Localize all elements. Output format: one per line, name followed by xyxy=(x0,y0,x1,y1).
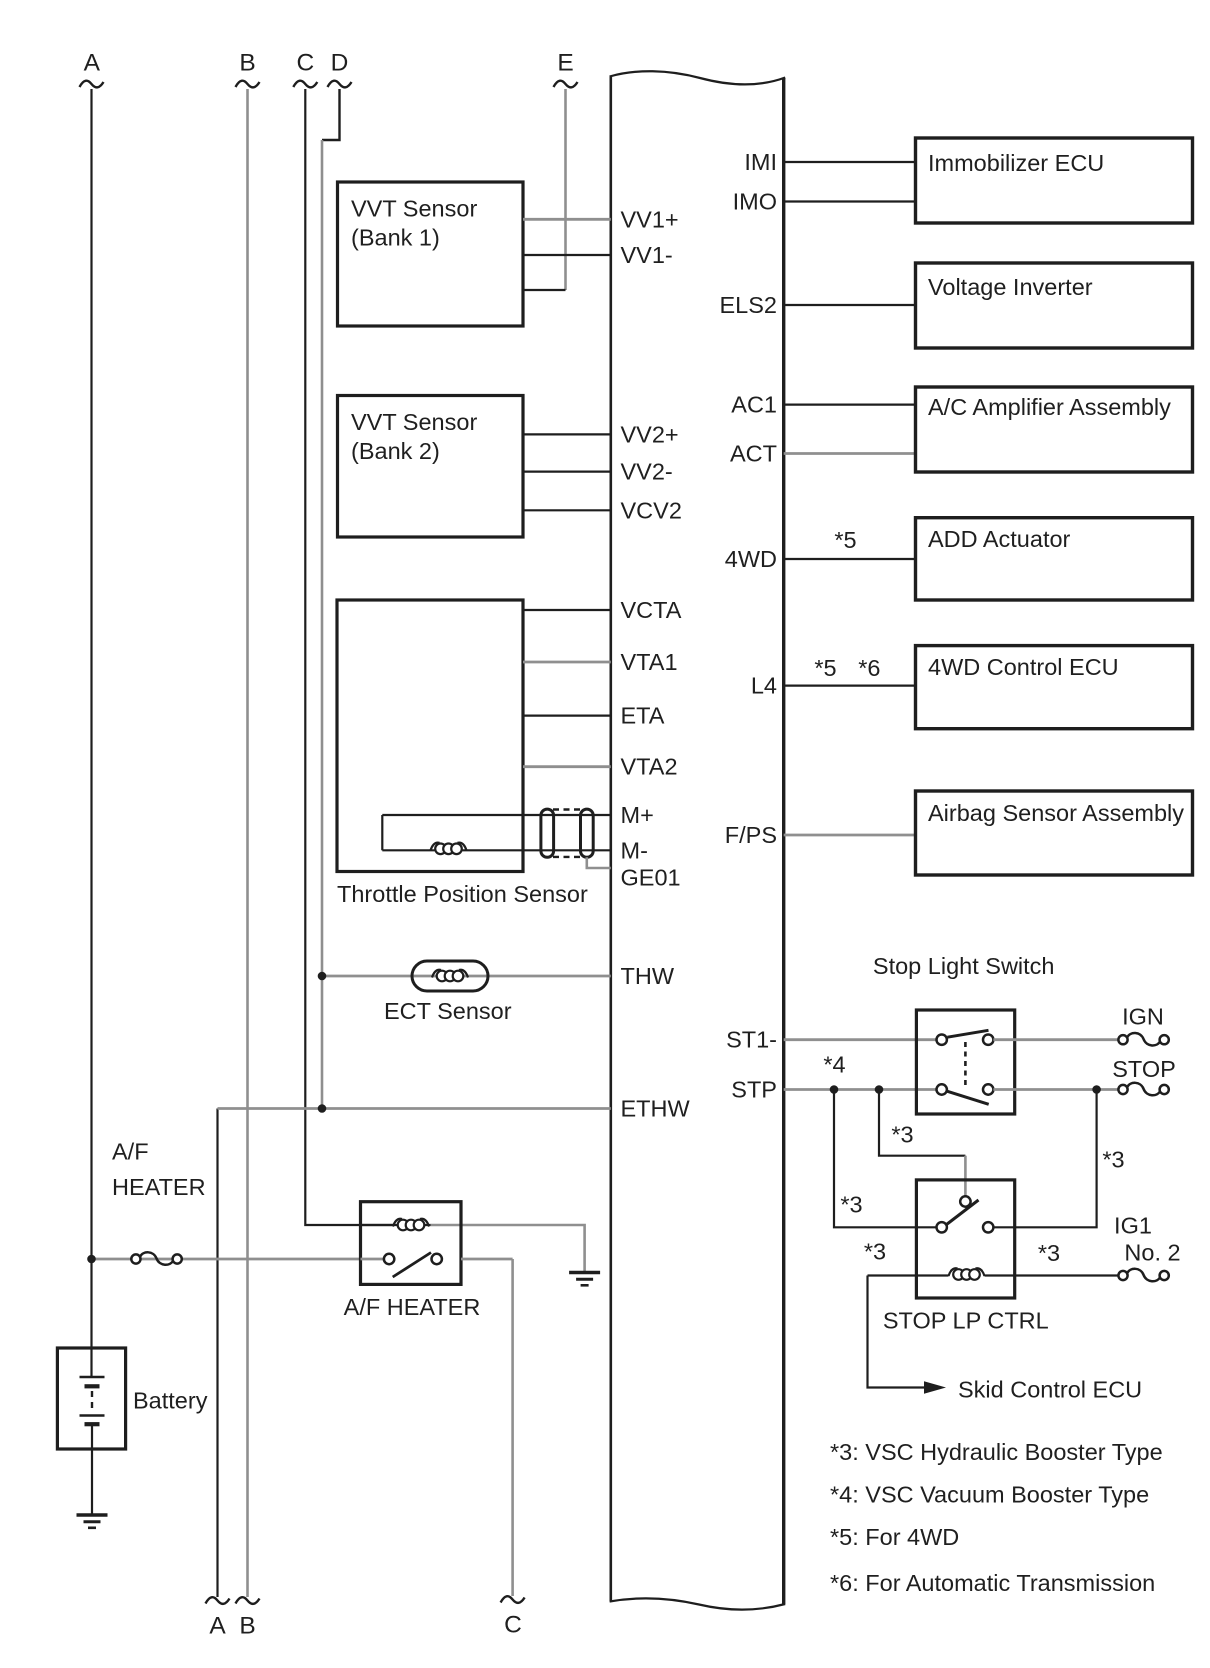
wire break D top xyxy=(328,81,352,88)
svg-text:A: A xyxy=(209,1613,226,1640)
svg-text:4WD: 4WD xyxy=(725,546,777,572)
wire break A top xyxy=(80,81,104,88)
svg-text:STP: STP xyxy=(731,1077,777,1103)
fuse STOP xyxy=(1118,1085,1127,1094)
battery box xyxy=(57,1348,125,1449)
wire THW xyxy=(322,975,611,978)
shield dashes top xyxy=(553,808,582,810)
svg-text:ECT Sensor: ECT Sensor xyxy=(384,998,512,1024)
wire VCV2 xyxy=(523,509,611,511)
svg-text:4WD Control ECU: 4WD Control ECU xyxy=(928,654,1119,680)
ADD actuator box xyxy=(916,518,1193,600)
switch contact ST1 right xyxy=(983,1035,993,1045)
wire battery feed xyxy=(92,1258,361,1261)
node STP junction 2 xyxy=(875,1085,884,1094)
svg-text:VVT Sensor: VVT Sensor xyxy=(351,196,477,222)
svg-text:GE01: GE01 xyxy=(621,865,681,891)
fuse A/F heater xyxy=(131,1254,140,1263)
wire VTA2 xyxy=(523,765,611,768)
wire STP drop to LP top xyxy=(879,1090,965,1156)
svg-text:F/PS: F/PS xyxy=(725,822,777,848)
switch contact LP left xyxy=(937,1222,947,1232)
svg-text:*5: *5 xyxy=(814,655,836,681)
svg-text:VTA2: VTA2 xyxy=(621,754,678,780)
switch arm STP xyxy=(947,1091,988,1104)
wire break B bottom xyxy=(236,1597,260,1604)
svg-text:Throttle Position Sensor: Throttle Position Sensor xyxy=(337,881,588,907)
svg-text:ADD Actuator: ADD Actuator xyxy=(928,526,1071,552)
thermistor ECT sensor capsule xyxy=(412,961,488,991)
switch contact ST1 left xyxy=(937,1035,947,1045)
wire VV1+ xyxy=(523,218,611,221)
svg-text:*3: *3 xyxy=(840,1192,862,1218)
wire VV2+ xyxy=(523,433,611,435)
svg-text:*4: *4 xyxy=(823,1052,845,1078)
stop lamp control relay box xyxy=(916,1180,1014,1298)
inductor throttle motor coil xyxy=(431,843,440,851)
wire relay coil feed xyxy=(361,1224,431,1226)
svg-text:M-: M- xyxy=(621,837,648,863)
svg-text:VCV2: VCV2 xyxy=(621,497,682,523)
wire VCTA xyxy=(523,609,611,611)
svg-text:VCTA: VCTA xyxy=(621,597,682,623)
wire ACT xyxy=(784,452,916,455)
wire IMI xyxy=(784,161,916,163)
switch contact STP left xyxy=(937,1084,947,1094)
shield dashes bottom xyxy=(553,856,582,858)
A/C amplifier assembly box xyxy=(916,387,1193,472)
svg-text:E: E xyxy=(557,50,573,77)
svg-text:(Bank 1): (Bank 1) xyxy=(351,225,440,251)
wire LP right contact to STP xyxy=(993,1090,1096,1228)
wire ETA xyxy=(523,714,611,716)
wire LP top contact feed xyxy=(964,1156,967,1197)
wire rail B xyxy=(246,89,249,1597)
wire VTA1 xyxy=(523,661,611,664)
wire bottom rail A xyxy=(216,1109,218,1598)
svg-text:Airbag Sensor Assembly: Airbag Sensor Assembly xyxy=(928,800,1184,826)
inductor LP coil xyxy=(949,1268,958,1276)
node ETHW junction xyxy=(318,1104,327,1113)
svg-text:C: C xyxy=(296,50,314,77)
ground battery ground xyxy=(77,1513,108,1517)
wire break A bottom xyxy=(206,1597,230,1604)
wire relay contact out xyxy=(461,1258,513,1261)
switch arm ST1 xyxy=(947,1030,988,1037)
svg-text:VV1-: VV1- xyxy=(621,242,673,268)
svg-text:*5: For 4WD: *5: For 4WD xyxy=(830,1524,959,1550)
svg-text:VV2-: VV2- xyxy=(621,459,673,485)
4WD control ECU box xyxy=(916,646,1193,729)
svg-text:L4: L4 xyxy=(751,673,777,699)
svg-text:HEATER: HEATER xyxy=(112,1174,206,1200)
node battery feed junction xyxy=(87,1255,96,1264)
wire battery negative xyxy=(91,1424,93,1514)
wire L4 xyxy=(784,684,916,686)
svg-text:ETA: ETA xyxy=(621,703,665,729)
svg-text:*6: *6 xyxy=(858,655,880,681)
svg-text:C: C xyxy=(504,1612,522,1639)
wire rail A xyxy=(90,89,92,1377)
wire LP coil right to fuse xyxy=(985,1274,1119,1276)
svg-text:B: B xyxy=(239,50,255,77)
svg-text:A/F HEATER: A/F HEATER xyxy=(344,1294,481,1320)
fuse IG1 No.2 xyxy=(1118,1271,1127,1280)
wire GE01 shield drain xyxy=(587,857,611,868)
svg-text:*3: *3 xyxy=(891,1122,913,1148)
immobilizer ECU box xyxy=(916,138,1193,223)
wire F/PS xyxy=(784,834,916,837)
wire STP xyxy=(784,1088,937,1091)
node STP junction right xyxy=(1092,1085,1101,1094)
svg-text:M+: M+ xyxy=(621,802,654,828)
switch arm LP xyxy=(947,1200,979,1225)
wire relay coil out xyxy=(431,1225,585,1271)
wire to skid control ECU xyxy=(868,1276,926,1388)
VVT sensor (Bank 1) box xyxy=(338,182,524,326)
shield ferrite right xyxy=(581,809,594,857)
wire VV1- xyxy=(523,254,611,256)
svg-text:VV2+: VV2+ xyxy=(621,421,679,447)
wire relay contact in xyxy=(361,1258,384,1261)
svg-text:ACT: ACT xyxy=(730,441,777,467)
wire 4WD xyxy=(784,558,916,560)
svg-text:*4: VSC Vacuum Booster Type: *4: VSC Vacuum Booster Type xyxy=(830,1482,1149,1508)
svg-text:IGN: IGN xyxy=(1122,1004,1164,1030)
svg-text:Skid Control ECU: Skid Control ECU xyxy=(958,1377,1142,1403)
VVT sensor (Bank 2) box xyxy=(338,396,524,538)
relay switch arm xyxy=(393,1253,431,1278)
wire STP to STOP xyxy=(993,1088,1118,1091)
wire break E top xyxy=(554,81,578,88)
switch dashed gang link xyxy=(964,1042,967,1088)
relay contact right xyxy=(432,1254,442,1264)
airbag sensor assembly box xyxy=(916,791,1193,875)
switch contact LP top xyxy=(960,1196,970,1206)
battery plate short bottom xyxy=(85,1422,100,1426)
wire AC1 xyxy=(784,404,916,406)
wire break B top xyxy=(236,81,260,88)
svg-text:(Bank 2): (Bank 2) xyxy=(351,438,440,464)
svg-text:*6: For Automatic Transmission: *6: For Automatic Transmission xyxy=(830,1570,1155,1596)
svg-text:*3: VSC Hydraulic Booster Type: *3: VSC Hydraulic Booster Type xyxy=(830,1439,1163,1465)
battery plate short top xyxy=(85,1384,100,1388)
svg-text:AC1: AC1 xyxy=(731,392,777,418)
svg-text:B: B xyxy=(239,1613,255,1640)
fuse IGN xyxy=(1118,1035,1127,1044)
battery plate long top xyxy=(80,1376,105,1378)
svg-text:VTA1: VTA1 xyxy=(621,649,678,675)
relay A/F HEATER box xyxy=(361,1202,462,1285)
wire LP coil left xyxy=(868,1274,949,1276)
svg-text:*3: *3 xyxy=(864,1239,886,1265)
arrowhead skid control xyxy=(924,1381,946,1393)
wire VVT1 to rail E xyxy=(523,289,566,291)
wire motor left link xyxy=(381,815,383,850)
wire rail D jog xyxy=(322,89,340,140)
svg-text:Stop Light Switch: Stop Light Switch xyxy=(873,953,1055,979)
svg-text:*5: *5 xyxy=(834,527,856,553)
svg-text:VVT Sensor: VVT Sensor xyxy=(351,409,477,435)
svg-text:Battery: Battery xyxy=(133,1388,208,1414)
wire rail E xyxy=(564,89,567,290)
ECM body left edge xyxy=(609,77,612,1602)
svg-text:STOP: STOP xyxy=(1112,1056,1176,1082)
svg-text:VV1+: VV1+ xyxy=(621,206,679,232)
ECM body right edge xyxy=(782,78,785,1604)
wire break C bottom xyxy=(501,1596,525,1603)
stop light switch box xyxy=(916,1010,1014,1114)
shield ferrite left xyxy=(541,809,554,857)
svg-text:IMI: IMI xyxy=(744,149,777,175)
svg-text:D: D xyxy=(331,50,349,77)
switch contact LP right xyxy=(983,1222,993,1232)
svg-text:No. 2: No. 2 xyxy=(1124,1240,1180,1266)
node THW junction xyxy=(318,972,327,981)
svg-text:*3: *3 xyxy=(1038,1240,1060,1266)
throttle position sensor box xyxy=(337,600,523,872)
ECM body bottom wavy edge xyxy=(610,1598,786,1609)
wire ELS2 xyxy=(784,304,916,306)
svg-text:THW: THW xyxy=(621,963,675,989)
voltage inverter box xyxy=(916,263,1193,348)
wire rail D continuation xyxy=(321,140,324,1109)
node STP junction 1 xyxy=(830,1085,839,1094)
ECM body top wavy edge xyxy=(610,71,786,84)
inductor ECT sensor element xyxy=(432,970,441,978)
wire bottom rail C xyxy=(511,1259,514,1596)
battery plate long bottom xyxy=(80,1414,105,1416)
wire M+ motor xyxy=(382,814,611,816)
switch contact STP right xyxy=(983,1084,993,1094)
svg-text:A/F: A/F xyxy=(112,1139,149,1165)
svg-text:Immobilizer ECU: Immobilizer ECU xyxy=(928,150,1104,176)
ground relay coil ground xyxy=(569,1271,600,1275)
svg-text:IG1: IG1 xyxy=(1114,1213,1152,1239)
svg-text:*3: *3 xyxy=(1102,1147,1124,1173)
svg-text:A/C Amplifier Assembly: A/C Amplifier Assembly xyxy=(928,394,1171,420)
svg-text:ELS2: ELS2 xyxy=(720,292,778,318)
inductor relay coil xyxy=(393,1219,402,1227)
wire STP drop to LP contact xyxy=(834,1090,937,1228)
svg-text:ETHW: ETHW xyxy=(621,1096,691,1122)
wire rail C xyxy=(305,89,394,1225)
wire M- motor xyxy=(382,849,611,851)
svg-text:ST1-: ST1- xyxy=(726,1027,777,1053)
svg-text:A: A xyxy=(84,50,101,77)
wire ST1- xyxy=(784,1038,937,1041)
wire break C top xyxy=(293,81,317,88)
svg-text:STOP LP CTRL: STOP LP CTRL xyxy=(883,1308,1049,1334)
wire ST1 to IGN xyxy=(993,1038,1118,1041)
wire IMO xyxy=(784,200,916,202)
svg-text:Voltage Inverter: Voltage Inverter xyxy=(928,274,1093,300)
wire ETHW xyxy=(218,1107,611,1110)
svg-text:IMO: IMO xyxy=(733,189,777,215)
battery dashed link xyxy=(91,1391,93,1411)
wire VV2- xyxy=(523,471,611,473)
relay contact left xyxy=(384,1254,394,1264)
